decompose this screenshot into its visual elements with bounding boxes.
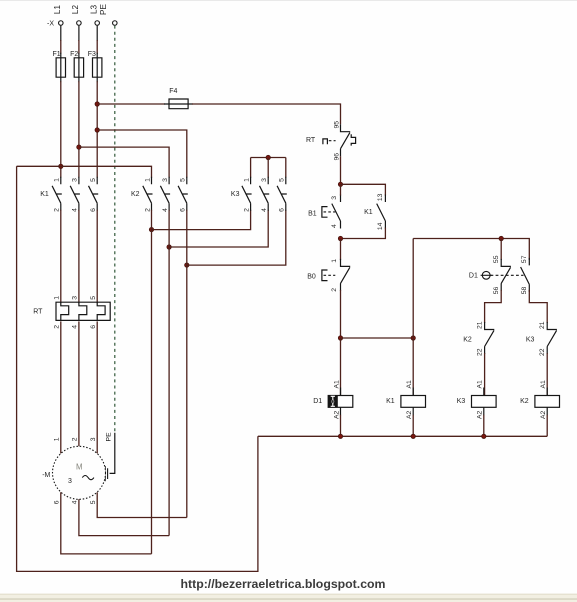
wire L3 terminal to fuse	[96, 40, 98, 54]
contactor coil K2	[535, 396, 560, 408]
wire K2 pole3 down to motor 5 line	[186, 210, 188, 518]
fuse F1	[56, 53, 65, 82]
wire RT heater 3 to motor	[96, 321, 98, 453]
timer D1 actuator line	[481, 274, 492, 276]
contactor coil K3 pins	[483, 388, 485, 416]
overload RT heater 2	[79, 302, 87, 320]
wire K2 pole2 to K3 pole2	[169, 210, 268, 247]
svg-text:3: 3	[68, 478, 72, 485]
timer D1 NC contact 55-56	[501, 259, 511, 291]
wire L3 to K2 pole3	[97, 130, 187, 178]
svg-text:K3: K3	[526, 337, 535, 344]
svg-text:95: 95	[333, 121, 340, 129]
node K1 coil feed	[411, 336, 415, 340]
svg-text:55: 55	[493, 255, 500, 263]
svg-text:K2: K2	[520, 398, 529, 405]
contactor K1 aux NO contact 13-14	[377, 195, 386, 229]
svg-text:5: 5	[90, 500, 97, 504]
wire RT heater 1 to motor	[60, 321, 62, 453]
wire node to B0	[340, 239, 342, 260]
node K2 pole1 / K3 pole1	[149, 227, 153, 231]
svg-text:3: 3	[261, 178, 268, 182]
wire D1 coil to rail	[340, 415, 342, 437]
wire L2 terminal to fuse	[78, 40, 80, 54]
svg-text:22: 22	[539, 348, 546, 356]
wire K1 pole 3 to RT heater	[96, 210, 98, 304]
svg-text:A2: A2	[406, 410, 413, 419]
wire K3 star bridge to pole 1	[250, 158, 252, 178]
svg-text:A1: A1	[477, 380, 484, 389]
wire K2 pole1 to K3 pole1	[152, 210, 251, 230]
svg-text:6: 6	[54, 500, 61, 504]
footer band edge	[0, 594, 577, 595]
node L1 to K2 tap	[59, 164, 63, 168]
svg-text:22: 22	[476, 348, 483, 356]
terminal L3	[95, 21, 100, 26]
svg-text:2: 2	[72, 437, 79, 441]
wire riser to D1 contacts rail	[413, 239, 529, 260]
timer D1 actuator	[482, 271, 490, 279]
svg-text:RT: RT	[33, 309, 43, 316]
svg-text:57: 57	[521, 255, 528, 263]
wire D1 56 to K2 NC	[485, 290, 502, 323]
svg-text:B1: B1	[308, 210, 317, 217]
svg-text:4: 4	[72, 208, 79, 212]
contactor K3 pole 2 NO contact	[260, 177, 270, 211]
wire coil feed rail	[341, 337, 414, 339]
node L3 to K2 tap	[95, 128, 99, 132]
overload RT body	[56, 302, 110, 320]
node L3-F4 tap	[95, 102, 99, 106]
svg-text:B0: B0	[307, 274, 316, 281]
svg-text:13: 13	[377, 193, 384, 201]
svg-text:PE: PE	[106, 432, 113, 442]
wire K2 NC to K3 coil	[484, 353, 486, 396]
overload RT heater 1	[61, 302, 69, 320]
svg-text:96: 96	[333, 153, 340, 161]
motor PE terminal marks	[105, 466, 107, 481]
wire K3 coil to rail	[483, 415, 485, 437]
node K2 pole2 / K3 pole2	[167, 245, 171, 249]
pushbutton B1 NO contact 3-4	[332, 195, 341, 229]
svg-text:21: 21	[539, 321, 546, 329]
svg-text:L2: L2	[71, 5, 80, 15]
terminal L1	[59, 21, 64, 26]
node K2 pole3 / K3 pole3	[185, 263, 189, 267]
footer band	[0, 594, 577, 602]
svg-text:6: 6	[279, 208, 286, 212]
svg-text:F2: F2	[70, 51, 78, 58]
node below B1	[338, 236, 342, 240]
pushbutton B1 actuator	[322, 207, 328, 218]
wire K2 pole2 down to motor 4 line	[168, 210, 170, 536]
svg-text:0: 0	[331, 400, 334, 406]
svg-text:1: 1	[54, 178, 61, 182]
contactor K1 pole 3 NO contact	[89, 177, 99, 211]
wire K2 coil to rail	[546, 415, 548, 437]
wire L2 to K2 pole2	[79, 147, 169, 178]
wire L1 terminal to fuse	[60, 40, 62, 54]
fuse F2	[74, 53, 83, 82]
contactor K3 NC contact 21-22	[547, 322, 557, 354]
node K3 coil return	[482, 434, 486, 438]
svg-text:1: 1	[54, 437, 61, 441]
node K3 star point	[266, 155, 270, 159]
footer band line	[0, 598, 577, 599]
contactor K1 pole 2 NO contact	[70, 177, 80, 211]
timer coil D1 pins	[340, 388, 342, 416]
svg-text:3: 3	[72, 296, 79, 300]
svg-text:5: 5	[90, 296, 97, 300]
svg-text:L1: L1	[53, 5, 62, 15]
svg-text:4: 4	[261, 208, 268, 212]
timer D1 NO contact 57-58	[521, 258, 530, 292]
svg-text:4: 4	[72, 325, 79, 329]
wire K2 pole3 to K3 pole3	[187, 210, 286, 265]
svg-text:5: 5	[279, 178, 286, 182]
svg-text:14: 14	[377, 222, 384, 230]
wire K1 pole 2 to RT heater	[78, 210, 80, 304]
svg-text:A1: A1	[333, 380, 340, 389]
wire K1 branch riser	[412, 239, 414, 396]
contactor K2 NC contact 21-22	[485, 322, 495, 354]
svg-text:A2: A2	[333, 410, 340, 419]
svg-text:M: M	[76, 462, 83, 471]
svg-text:5: 5	[180, 178, 187, 182]
wire D1 58 to K3 NC	[529, 290, 547, 323]
wire motor 6 to K2 pole1	[61, 492, 152, 554]
contactor K2 pole 2 NO contact	[160, 177, 170, 211]
RT actuator symbol	[323, 139, 328, 144]
svg-text:D1: D1	[469, 273, 478, 280]
svg-text:2: 2	[54, 325, 61, 329]
fuse F4	[164, 99, 193, 109]
svg-text:K1: K1	[386, 398, 395, 405]
wire K3 star bridge to pole 2	[267, 158, 269, 178]
svg-text:6: 6	[90, 325, 97, 329]
wire K3 star bridge	[251, 157, 286, 159]
svg-text:K1: K1	[364, 209, 373, 216]
timer coil D1 fill	[328, 396, 338, 408]
contactor K2 pole 3 NO contact	[178, 177, 188, 211]
wire PE to motor frame	[110, 433, 115, 474]
pushbutton B0 actuator	[322, 270, 328, 281]
pushbutton B0 actuator dashed link	[324, 274, 336, 276]
svg-text:2: 2	[54, 208, 61, 212]
svg-text:4: 4	[72, 500, 79, 504]
wire K1 pole 1 to RT heater	[60, 210, 62, 304]
wire L1 to K2 pole1	[17, 166, 152, 177]
svg-text:-X: -X	[47, 21, 54, 28]
svg-text:3: 3	[162, 178, 169, 182]
contactor K2 pole 1 NO contact	[143, 177, 153, 211]
svg-text:-M: -M	[42, 472, 50, 479]
svg-text:3: 3	[331, 196, 338, 200]
svg-text:2: 2	[144, 208, 151, 212]
wire node to K1 aux 13	[341, 184, 386, 195]
wire PE conductor (dashed green)	[114, 26, 116, 433]
svg-text:A2: A2	[540, 410, 547, 419]
svg-text:4: 4	[162, 208, 169, 212]
wire RT heater 2 to motor	[78, 321, 80, 446]
wire motor 4 to K2 pole2	[79, 499, 169, 535]
svg-text:58: 58	[521, 287, 528, 295]
timer coil D1	[328, 396, 353, 408]
svg-text:K2: K2	[131, 191, 140, 198]
svg-text:A1: A1	[540, 380, 547, 389]
node D1 NC contact tap	[499, 236, 503, 240]
svg-text:A2: A2	[477, 410, 484, 419]
svg-text:3: 3	[90, 437, 97, 441]
wire K2 pole1 down to motor 6 line	[151, 210, 153, 554]
svg-text:6: 6	[90, 208, 97, 212]
motor tilde	[82, 476, 94, 480]
wire RT 96 to node	[340, 156, 342, 184]
wire L1 fuse to K1 pole1	[60, 81, 62, 178]
wire coil return rail	[258, 435, 547, 437]
svg-text:5: 5	[90, 178, 97, 182]
svg-text:K3: K3	[457, 398, 466, 405]
terminal L2	[77, 21, 82, 26]
wire K1 aux 14 to node	[341, 228, 386, 239]
terminal PE	[113, 21, 118, 26]
svg-text:K2: K2	[463, 337, 472, 344]
contactor K1 pole 1 NO contact	[52, 177, 62, 211]
wire L1 terminal stub	[60, 26, 62, 41]
node D1 coil feed	[338, 336, 342, 340]
svg-text:56: 56	[493, 287, 500, 295]
wire F4 to RT contact	[192, 104, 341, 124]
svg-text:F4: F4	[169, 88, 177, 95]
svg-text:6: 6	[180, 208, 187, 212]
motor M body	[53, 446, 106, 499]
pushbutton B0 NC contact 1-2	[341, 259, 351, 291]
contactor coil K2 pins	[546, 388, 548, 416]
svg-text:4: 4	[331, 224, 338, 228]
overload RT NC contact 95-96	[341, 124, 351, 156]
svg-text:1: 1	[144, 178, 151, 182]
overload RT trip hook	[351, 134, 355, 145]
fuse F3	[93, 53, 102, 82]
svg-text:2: 2	[243, 208, 250, 212]
pushbutton B1 actuator dashed link	[324, 211, 336, 213]
wire L1 return loop to coil rail	[17, 166, 258, 571]
timer D1 dashed link	[491, 274, 524, 276]
wire node to B1	[340, 184, 342, 195]
contactor coil K1	[401, 396, 426, 408]
svg-text:3: 3	[72, 178, 79, 182]
contactor coil K1 pins	[412, 388, 414, 416]
wire K3 NC to K2 coil	[546, 353, 548, 396]
svg-text:D1: D1	[313, 398, 322, 405]
wire L3 terminal stub	[96, 26, 98, 41]
wire L2 fuse to K1 pole2	[78, 81, 80, 178]
svg-text:PE: PE	[99, 4, 108, 15]
wire node to D1 coil	[340, 338, 342, 396]
svg-text:2: 2	[331, 288, 338, 292]
node D1 coil return	[338, 434, 342, 438]
svg-text:L3: L3	[89, 5, 98, 15]
svg-text:A1: A1	[406, 380, 413, 389]
contactor K3 pole 1 NO contact	[242, 177, 252, 211]
wire L2 terminal stub	[78, 26, 80, 41]
node L2 to K2 tap	[77, 145, 81, 149]
node start branch top	[338, 182, 342, 186]
wire motor 5 to K2 pole3	[97, 492, 187, 517]
wire L3 to F4	[97, 103, 165, 105]
svg-text:21: 21	[476, 321, 483, 329]
svg-text:K1: K1	[40, 191, 49, 198]
svg-text:1: 1	[243, 178, 250, 182]
svg-text:K3: K3	[231, 191, 240, 198]
timer coil D1 mark	[331, 396, 335, 406]
wire L3 fuse to K1 pole3	[96, 81, 98, 178]
wire tap to D1 contact 55	[500, 239, 502, 260]
wire K3 star bridge to pole 3	[285, 158, 287, 178]
svg-text:F3: F3	[88, 51, 96, 58]
svg-text:RT: RT	[306, 137, 316, 144]
svg-text:http://bezerraeletrica.blogspo: http://bezerraeletrica.blogspot.com	[181, 577, 386, 591]
RT dashed link	[329, 140, 336, 142]
top edge line	[0, 0, 577, 1]
overload RT heater 3	[97, 302, 105, 320]
svg-text:1: 1	[54, 296, 61, 300]
node K1 coil return	[411, 434, 415, 438]
contactor coil K3	[472, 396, 497, 408]
svg-text:F1: F1	[53, 51, 61, 58]
wire K1 coil to rail	[412, 415, 414, 437]
wire B0 to coil node	[340, 290, 342, 338]
svg-text:1: 1	[331, 259, 338, 263]
contactor K3 pole 3 NO contact	[277, 177, 287, 211]
